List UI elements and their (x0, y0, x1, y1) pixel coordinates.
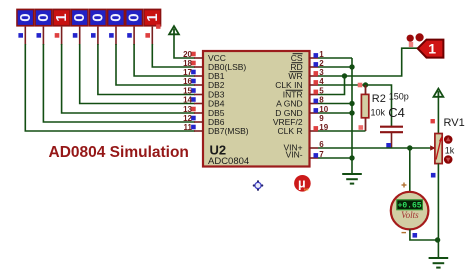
logic state L6 value 0 (107, 9, 125, 45)
wire CLKIN to C4 (366, 85, 392, 126)
pin 3 WR (288, 68, 324, 81)
svg-text:15: 15 (183, 87, 192, 96)
wire L5 to DB pin (98, 44, 195, 95)
junction voltmeter return (435, 237, 440, 242)
svg-text:0: 0 (35, 13, 52, 21)
pin 4 CLK IN (275, 77, 324, 90)
ground symbol G1 (342, 173, 362, 175)
pin 16 DB2 (183, 77, 225, 90)
svg-text:RV1: RV1 (444, 117, 465, 129)
wire CLKR to R2 (318, 130, 366, 132)
svg-text:1k: 1k (445, 146, 455, 156)
logic state L3 value 1 (53, 9, 71, 45)
junction AGND-bus (349, 101, 354, 106)
wire VIN+ to voltmeter (409, 148, 411, 192)
wire RV1 bottom to ground (437, 164, 439, 258)
wire L1 to DB pin (25, 44, 195, 131)
power terminal VCC (156, 24, 195, 58)
junction VIN--bus (349, 155, 354, 160)
wire L8 to DB pin (152, 44, 195, 67)
wire VIN+ to RV1 wiper (318, 147, 432, 149)
svg-text:12: 12 (183, 114, 192, 123)
pin 17 DB1 (183, 68, 225, 81)
svg-text:C4: C4 (388, 105, 405, 120)
wire L6 to DB pin (116, 44, 195, 85)
pin 13 DB5 (183, 105, 225, 118)
junction WR node (342, 73, 347, 78)
pin 20 VCC (183, 50, 226, 63)
pin 7 VIN- (286, 150, 325, 160)
pin 1 CS (291, 50, 325, 63)
origin marker (253, 180, 264, 191)
wire DGND to bus (318, 112, 352, 114)
wire AGND to bus (318, 103, 352, 105)
wire voltmeter minus to ground (410, 229, 439, 240)
RV1 bottom pin square (431, 173, 436, 178)
pin 6 VIN+ (283, 140, 324, 153)
svg-text:18: 18 (183, 59, 192, 68)
power terminal RV1 (431, 89, 444, 134)
ground bus wire (351, 58, 353, 174)
svg-text:Volts: Volts (401, 210, 419, 220)
voltmeter minus pin square (413, 233, 418, 238)
pin 11 DB7(MSB) (184, 123, 249, 136)
RV1 wiper arrowhead (430, 145, 435, 150)
svg-text:0: 0 (71, 13, 88, 21)
wire CS to bus (318, 57, 352, 59)
watermark logo (294, 175, 311, 192)
resistor R2 (358, 83, 369, 131)
op-amp U2 ADC0804 body (203, 51, 310, 167)
svg-text:150p: 150p (389, 91, 409, 101)
svg-text:1: 1 (53, 13, 70, 21)
svg-text:9: 9 (319, 114, 324, 123)
pin 10 D GND (275, 105, 329, 118)
svg-text:0: 0 (89, 13, 106, 21)
pin 2 RD (290, 59, 324, 72)
svg-text:DB2: DB2 (208, 80, 225, 90)
pin 8 A GND (276, 96, 324, 109)
pin 19 CLK R (278, 123, 329, 136)
logic state L7 value 0 (125, 9, 143, 45)
pin 18 DB0(LSB) (183, 59, 246, 72)
voltmeter minus mark (402, 232, 407, 234)
wire L7 to DB pin (134, 44, 195, 76)
logic state L2 value 0 (34, 9, 52, 45)
voltmeter plus mark (402, 183, 407, 188)
svg-text:DB7(MSB): DB7(MSB) (208, 126, 249, 136)
svg-text:0: 0 (108, 13, 125, 21)
logic probe indicator dots (407, 33, 424, 47)
svg-text:VIN-: VIN- (286, 150, 303, 160)
svg-text:17: 17 (183, 68, 192, 77)
junction DGND-bus (349, 110, 354, 115)
wire WR stub (318, 75, 345, 77)
pin 15 DB3 (183, 87, 225, 100)
svg-text:ADC0804: ADC0804 (208, 156, 249, 167)
RV1 adjust buttons (444, 135, 453, 164)
wire WR-INTR link (318, 76, 345, 95)
capacitor C4 (380, 127, 403, 148)
wire L3 to DB pin (62, 44, 195, 113)
wire L2 to DB pin (43, 44, 195, 122)
wire to logic probe (345, 48, 418, 76)
junction CLKIN-R2 (363, 82, 368, 87)
svg-text:0: 0 (17, 13, 34, 21)
wire L4 to DB pin (80, 44, 195, 104)
junction VIN+ voltmeter (407, 145, 412, 150)
logic state L8 value 1 (143, 9, 161, 45)
svg-text:0: 0 (126, 13, 143, 21)
svg-text:1: 1 (428, 41, 436, 57)
pin 12 DB6 (183, 114, 225, 127)
svg-text:CLK IN: CLK IN (275, 80, 302, 90)
ground symbol G2 (429, 257, 449, 259)
logic probe U1 showing 1 (418, 40, 444, 58)
logic state L1 value 0 (16, 9, 34, 45)
svg-text:20: 20 (183, 50, 192, 59)
svg-text:14: 14 (183, 96, 192, 105)
svg-text:us: us (304, 186, 309, 191)
svg-text:AD0804 Simulation: AD0804 Simulation (49, 144, 189, 161)
svg-text:11: 11 (184, 123, 193, 132)
logic state L4 value 0 (71, 9, 89, 45)
svg-text:A GND: A GND (276, 99, 302, 109)
svg-text:CLK R: CLK R (278, 126, 303, 136)
svg-text:10k: 10k (371, 108, 386, 118)
wire VIN- to bus (318, 157, 352, 159)
potentiometer RV1 (435, 134, 443, 164)
wire RD to bus (318, 66, 352, 68)
pin 5 INTR (283, 87, 325, 100)
pin 14 DB4 (183, 96, 225, 109)
svg-text:DB4: DB4 (208, 99, 225, 109)
logic state L5 value 0 (89, 9, 107, 45)
wire CLKIN node (318, 84, 366, 86)
junction RD-bus (349, 64, 354, 69)
svg-text:16: 16 (183, 77, 192, 86)
voltmeter body (391, 192, 429, 230)
svg-text:R2: R2 (372, 93, 386, 105)
pin 9 VREF/2 (273, 114, 324, 127)
svg-text:1: 1 (144, 13, 161, 21)
svg-text:13: 13 (183, 105, 192, 114)
